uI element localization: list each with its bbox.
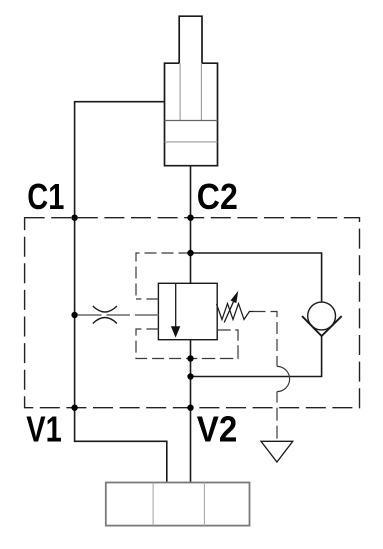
svg-text:V2: V2 xyxy=(197,409,238,450)
svg-text:V1: V1 xyxy=(26,408,62,449)
svg-text:C2: C2 xyxy=(197,176,238,217)
svg-text:C1: C1 xyxy=(27,176,64,217)
